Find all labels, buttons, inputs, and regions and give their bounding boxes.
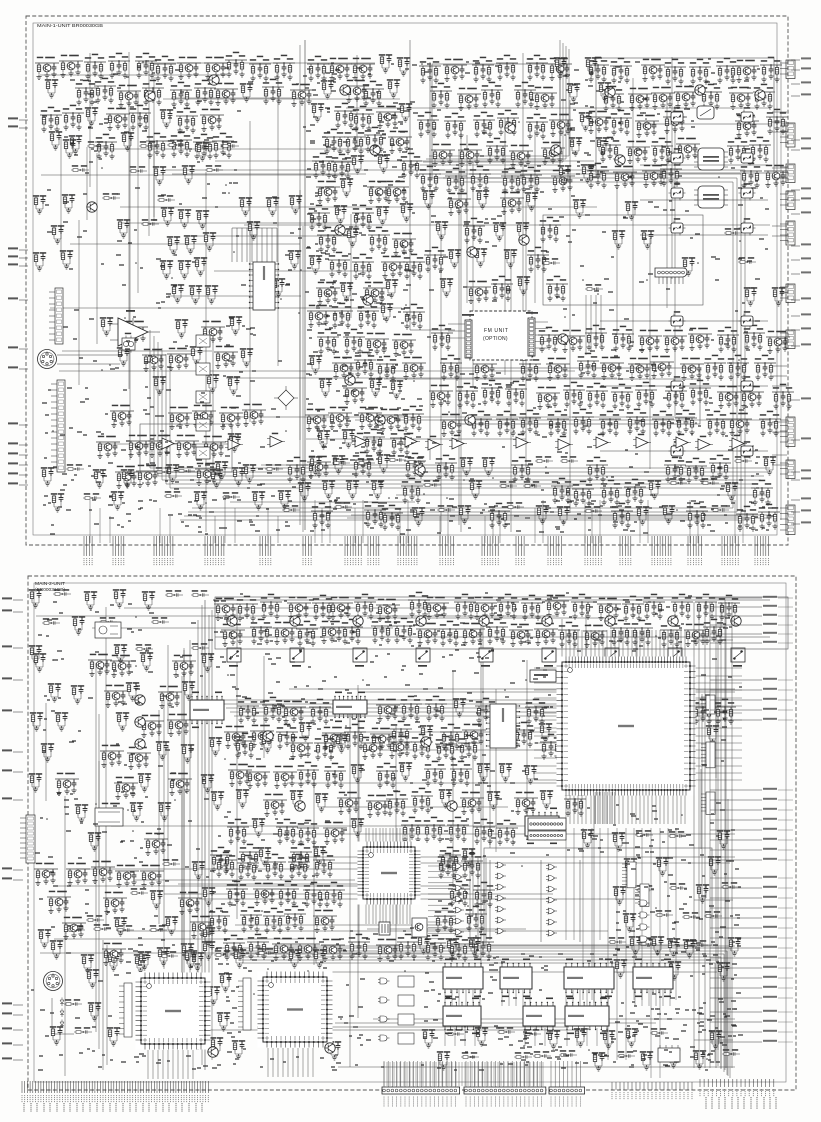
resistor R223 / capacitor C223 bias network [600, 480, 622, 505]
section box: detector [456, 368, 700, 424]
OR gate A35 [453, 918, 464, 924]
pin label text [89, 1103, 91, 1112]
wire [534, 697, 558, 699]
RC filter R534/C534 [207, 986, 220, 1005]
transistor Q103 [209, 75, 219, 85]
resistor R188 / capacitor C188 bias network [599, 411, 621, 436]
wire [694, 667, 726, 669]
wire [383, 1062, 385, 1086]
transistor Q27 amplifier stage [343, 382, 367, 405]
wire [171, 97, 302, 99]
wire [598, 794, 600, 824]
wire [586, 295, 601, 355]
RC filter R536/C536 [210, 1037, 223, 1056]
transistor Q173 amplifier stage [66, 863, 90, 886]
resistor R476 / capacitor C476 bias network [448, 936, 470, 961]
transistor Q28 amplifier stage [305, 409, 329, 432]
wire [230, 501, 415, 503]
OR gate A26 [546, 897, 557, 903]
wire [226, 707, 717, 709]
gate A43 [320, 1030, 331, 1036]
crystal filter X3 [669, 148, 686, 165]
wire [141, 62, 375, 64]
wire [147, 1050, 149, 1079]
wire [452, 671, 454, 887]
wire [507, 1062, 509, 1086]
node N105 junction [521, 865, 523, 867]
connector J27 pin comb [688, 536, 702, 556]
resistor R461 / capacitor C461 bias network [303, 882, 325, 907]
resistor R399 / capacitor C399 bias network [424, 761, 446, 786]
wire [464, 1028, 466, 1046]
svg-text:FM UNIT: FM UNIT [484, 328, 508, 334]
coupling network R527/C527 [86, 915, 104, 922]
transistor Q112 [467, 247, 477, 257]
connector J6 [786, 191, 795, 210]
wire [693, 602, 695, 1068]
coupling network R524/C524 [130, 888, 148, 895]
node N156 signal to edge [710, 615, 762, 617]
coil unit T7 [605, 648, 619, 662]
wire [282, 1048, 284, 1077]
wire [439, 516, 441, 543]
transistor Q168 amplifier stage [272, 938, 296, 961]
node N113 junction [588, 1049, 590, 1051]
coupling network R541/C541 [214, 950, 232, 957]
transistor Q15 amplifier stage [316, 181, 340, 204]
coupling network R522/C522 [162, 859, 180, 866]
resistor R86 / capacitor C86 bias network [402, 406, 424, 431]
resistor R19 / capacitor C19 bias network [129, 105, 151, 130]
RC filter R483/C483 [202, 927, 215, 946]
node N50 junction [645, 118, 647, 120]
resistor R48 / capacitor C48 bias network [334, 103, 356, 128]
wire [86, 147, 88, 220]
wire [89, 500, 91, 543]
wire [105, 607, 107, 926]
resistor R52 / capacitor C52 bias network [344, 129, 366, 154]
resistor R305 / capacitor C305 bias network [236, 596, 258, 621]
pin label text [115, 1103, 117, 1112]
wire [395, 726, 397, 956]
resistor R103 / capacitor C103 bias network [444, 113, 466, 138]
gate A42 [320, 1019, 331, 1025]
wire [312, 1048, 314, 1077]
resistor R16 / capacitor C16 bias network [40, 107, 62, 132]
wire [725, 602, 727, 1068]
wire [542, 1062, 544, 1086]
resistor R24 / capacitor C24 bias network [95, 134, 117, 159]
node N41 junction [448, 411, 450, 413]
wire [429, 1062, 431, 1086]
wire [715, 676, 717, 778]
resistor R108 / capacitor C108 bias network [419, 166, 441, 191]
node N195 (edge signal) [791, 245, 800, 247]
wire [616, 187, 618, 335]
node N168 signal to edge [710, 819, 762, 821]
wire [726, 675, 742, 677]
coupling network R480/C480 [93, 924, 111, 931]
wire [726, 727, 742, 729]
transistor Q159 amplifier stage [273, 766, 297, 789]
wire [594, 630, 596, 658]
node N74 (edge signal) [19, 484, 28, 486]
coupling network R302/C302 [157, 195, 175, 202]
transistor Q94 amplifier stage [440, 414, 464, 437]
node N29 junction [348, 485, 350, 487]
wire [163, 700, 165, 969]
RC filter R296/C296 [178, 260, 191, 279]
wire [321, 508, 323, 543]
node N207 (edge signal) [13, 1044, 23, 1046]
transistor Q175 amplifier stage [115, 865, 139, 888]
RC filter R554/C554 [558, 165, 571, 184]
node N130 junction [530, 983, 532, 985]
transistor Q122 amplifier stage [545, 595, 569, 618]
RC filter R516/C516 [592, 1052, 605, 1071]
resistor R96 / capacitor C96 bias network [472, 57, 494, 82]
coil unit T6 [542, 648, 556, 662]
IC U24 (DIP) [565, 1006, 609, 1026]
coupling network R219/C219 [499, 481, 517, 488]
resistor R192 / capacitor C192 bias network [706, 411, 728, 436]
resistor R116 / capacitor C116 bias network [689, 59, 711, 84]
wire [70, 243, 300, 245]
resistor R324 / capacitor C324 bias network [439, 621, 461, 646]
node N34 junction [171, 277, 173, 279]
RC filter R508/C508 [625, 1028, 638, 1047]
wire [526, 1062, 528, 1086]
wire [297, 1048, 299, 1077]
wire [256, 228, 258, 262]
wire [639, 794, 641, 824]
RC filter R68/C68 [309, 255, 322, 274]
wire [244, 224, 770, 226]
wire [639, 508, 641, 543]
wire [466, 135, 468, 303]
pin label text [109, 1103, 111, 1112]
RC filter R368/C368 [48, 683, 61, 702]
node N181 signal to edge [710, 957, 762, 959]
node N183 signal to edge [710, 977, 762, 979]
node N139 junction [370, 607, 372, 609]
transistor Q150 amplifier stage [114, 777, 138, 800]
MAIN-1-UNIT inner border [33, 23, 777, 535]
wire [181, 676, 183, 1012]
RC filter R506/C506 [574, 1028, 587, 1047]
wire [709, 602, 711, 1068]
wire [640, 164, 768, 166]
wire [458, 990, 460, 1006]
coupling network R504/C504 [523, 1029, 541, 1036]
resistor R122 / capacitor C122 bias network [610, 110, 632, 135]
transistor Q8 amplifier stage [106, 108, 130, 131]
RC filter R551/C551 [579, 112, 592, 131]
transistor Q79 amplifier stage [561, 330, 585, 353]
node N14 junction [691, 433, 693, 435]
op-amp A5 [352, 433, 370, 447]
wire [627, 630, 629, 658]
wire [489, 860, 491, 940]
wire [271, 228, 273, 262]
transistor Q148 amplifier stage [127, 747, 151, 770]
component value labels [133, 938, 363, 1070]
resistor R352 / capacitor C352 bias network [475, 698, 497, 723]
wire [726, 682, 742, 684]
wire [205, 172, 207, 532]
resistor R175 / capacitor C175 bias network [505, 381, 527, 406]
RC filter R364/C364 [706, 725, 719, 744]
RC filter R342/C342 [29, 645, 42, 664]
wire [534, 757, 558, 759]
node N167 signal to edge [710, 809, 762, 811]
node N52 junction [101, 167, 103, 169]
resistor R117 / capacitor C117 bias network [716, 58, 738, 83]
resistor R3 / capacitor C3 bias network [135, 53, 157, 78]
wire [267, 1048, 269, 1077]
wire [697, 516, 699, 543]
node N60 junction [752, 445, 754, 447]
resistor R216 / capacitor C216 bias network [401, 478, 423, 503]
wire [251, 228, 253, 262]
OR gate A25 [546, 886, 557, 892]
node N126 junction [295, 864, 297, 866]
coupling network R446/C446 [682, 912, 700, 919]
transistor Q93 amplifier stage [740, 386, 764, 409]
node N177 signal to edge [710, 917, 762, 919]
crystal filter X6 [739, 183, 756, 200]
transistor Q80 amplifier stage [638, 330, 662, 353]
node N151 (edge signal) [13, 799, 23, 801]
wire [163, 98, 400, 100]
wire [102, 940, 104, 1070]
transistor Q60 amplifier stage [467, 281, 491, 304]
connector J34 comb [706, 742, 715, 768]
pin label text [69, 1103, 71, 1112]
resistor R347 / capacitor C347 bias network [262, 697, 284, 722]
wire [594, 794, 596, 824]
node N38 junction [124, 317, 126, 319]
transistor Q129 amplifier stage [509, 624, 533, 647]
resistor R386 / capacitor C386 bias network [234, 733, 256, 758]
wire [534, 727, 558, 729]
transistor Q142 amplifier stage [172, 655, 196, 678]
wire [772, 464, 787, 466]
coupling network R556/C556 [64, 999, 82, 1006]
resistor R413 / capacitor C413 bias network [564, 791, 586, 816]
RC filter R299/C299 [189, 285, 202, 304]
resistor R107 / capacitor C107 bias network [486, 138, 508, 163]
wire [276, 945, 735, 947]
transistor Q38 amplifier stage [431, 144, 455, 167]
RC filter R8/C8 [45, 79, 58, 98]
node N3 junction [646, 279, 648, 281]
wire [640, 234, 768, 236]
component value labels [43, 460, 296, 534]
resistor R185 / capacitor C185 bias network [519, 410, 541, 435]
transistor Q132 amplifier stage [684, 624, 708, 647]
wire [484, 1062, 486, 1086]
wire [380, 749, 561, 751]
wire [428, 910, 453, 912]
wire [159, 508, 161, 543]
transistor Q176 amplifier stage [140, 865, 164, 888]
transistor Q43 amplifier stage [641, 59, 665, 82]
node N39 junction [225, 184, 227, 186]
wire [287, 782, 675, 784]
RC filter R538/C538 [138, 951, 151, 970]
node N160 signal to edge [710, 679, 762, 681]
pin label text [36, 1103, 38, 1112]
RC filter R244/C244 [636, 506, 649, 525]
resistor R356 / capacitor C356 bias network [276, 724, 298, 749]
RC filter R439/C439 [613, 886, 626, 905]
RC filter R372/C372 [30, 712, 43, 731]
resistor R416 / capacitor C416 bias network [276, 819, 298, 844]
resistor R123 / capacitor C123 bias network [766, 109, 788, 134]
transistor Q179 amplifier stage [178, 892, 202, 915]
transistor Q92 amplifier stage [717, 386, 741, 409]
connector J22 pin comb [516, 536, 524, 556]
RC filter R88/C88 [342, 429, 355, 448]
wire [454, 1028, 456, 1046]
wire [212, 335, 214, 475]
RC filter R85/C85 [390, 380, 403, 399]
resistor R424 / capacitor C424 bias network [210, 847, 232, 872]
node N108 junction [348, 606, 350, 608]
transistor Q83 amplifier stage [766, 331, 790, 354]
wire [235, 924, 442, 926]
node N25 junction [233, 251, 235, 253]
wire [510, 249, 512, 532]
wire [211, 610, 213, 1060]
resistor R121 / capacitor C121 bias network [753, 84, 775, 109]
wire [579, 990, 581, 1006]
resistor R167 / capacitor C167 bias network [440, 355, 462, 380]
node N145 (edge signal) [13, 611, 23, 613]
coupling network R205/C205 [560, 456, 578, 463]
node N178 signal to edge [710, 927, 762, 929]
resistor R79 / capacitor C79 bias network [343, 329, 365, 354]
resistor R307 / capacitor C307 bias network [312, 595, 334, 620]
OR gate A31 [453, 874, 464, 880]
RC filter R286/C286 [51, 225, 64, 244]
coupling network R239/C239 [506, 502, 524, 509]
wire [622, 630, 624, 658]
AND gate A47 [378, 1035, 390, 1041]
wire [499, 516, 501, 543]
wire [700, 769, 702, 849]
node N136 junction [621, 760, 623, 762]
RC filter R266/C266 [278, 490, 291, 509]
wire [363, 691, 735, 693]
coupling network R251/C251 [66, 464, 84, 471]
node N91 junction [587, 1028, 589, 1030]
RC filter R76/C76 [380, 303, 393, 322]
wire [392, 899, 394, 924]
RC filter R537/C537 [232, 1040, 245, 1059]
transistor Q196 [421, 737, 431, 747]
wire [92, 627, 393, 629]
RC filter R523/C523 [192, 861, 205, 880]
node N173 signal to edge [710, 877, 762, 879]
op-amp A11 [593, 434, 611, 448]
wire [694, 719, 726, 721]
wire [579, 860, 581, 942]
transistor Q200 [208, 1047, 218, 1057]
coupling network R210/C210 [734, 456, 752, 463]
RC filter R253/C253 [121, 469, 134, 488]
RC filter R412/C412 [540, 790, 553, 809]
coupling network R230/C230 [282, 505, 300, 512]
wire [261, 464, 446, 466]
wire [455, 1062, 457, 1086]
wire [694, 735, 726, 737]
transistor Q110 [558, 334, 568, 344]
RC filter R270/C270 [641, 230, 654, 249]
wire [429, 62, 431, 460]
node N193 (edge signal) [791, 189, 800, 191]
resistor R395 / capacitor C395 bias network [324, 763, 346, 788]
resistor R166 / capacitor C166 bias network [743, 325, 765, 350]
transistor Q191 driver [731, 616, 741, 626]
resistor R329 / capacitor C329 bias network [660, 622, 682, 647]
wire [447, 508, 449, 543]
wire [402, 828, 404, 847]
RC filter R284/C284 [33, 195, 46, 214]
wire [328, 862, 730, 864]
wire [354, 508, 356, 543]
wire [534, 735, 558, 737]
wire [425, 1062, 427, 1086]
node N76 (edge signal) [791, 83, 800, 85]
resistor R203 / capacitor C203 bias network [511, 457, 533, 482]
OR gate A21 [495, 917, 506, 923]
coupling network R220/C220 [523, 481, 541, 488]
RC filter R339/C339 [72, 616, 85, 635]
RC filter R499/C499 [328, 1041, 341, 1060]
RC filter R280/C280 [289, 195, 302, 214]
wire [659, 794, 661, 824]
wire [669, 990, 671, 1006]
node N18 junction [142, 61, 144, 63]
RC filter R545/C545 [313, 949, 326, 968]
wire [680, 630, 682, 658]
node N200 (edge signal) [791, 439, 800, 441]
coupling network R451/C451 [690, 940, 708, 947]
wire [338, 1066, 735, 1068]
RC filter R39/C39 [182, 165, 195, 184]
wire [694, 899, 733, 901]
wire [238, 960, 718, 1066]
resistor R427 / capacitor C427 bias network [290, 844, 312, 869]
IC U19 (DIP) [500, 967, 532, 989]
wire [487, 1062, 489, 1086]
wire [167, 1050, 169, 1079]
node N118 junction [224, 758, 226, 760]
resistor R99 / capacitor C99 bias network [430, 83, 452, 108]
transistor Q31 amplifier stage [379, 409, 403, 432]
wire [232, 416, 695, 418]
wire [386, 1062, 388, 1086]
node N12 junction [564, 134, 566, 136]
wire [165, 169, 445, 171]
RC filter R333/C333 [84, 591, 97, 610]
wire [236, 609, 238, 919]
node N59 junction [332, 283, 334, 285]
resistor R394 / capacitor C394 bias network [297, 762, 319, 787]
node N199 (edge signal) [791, 399, 800, 401]
